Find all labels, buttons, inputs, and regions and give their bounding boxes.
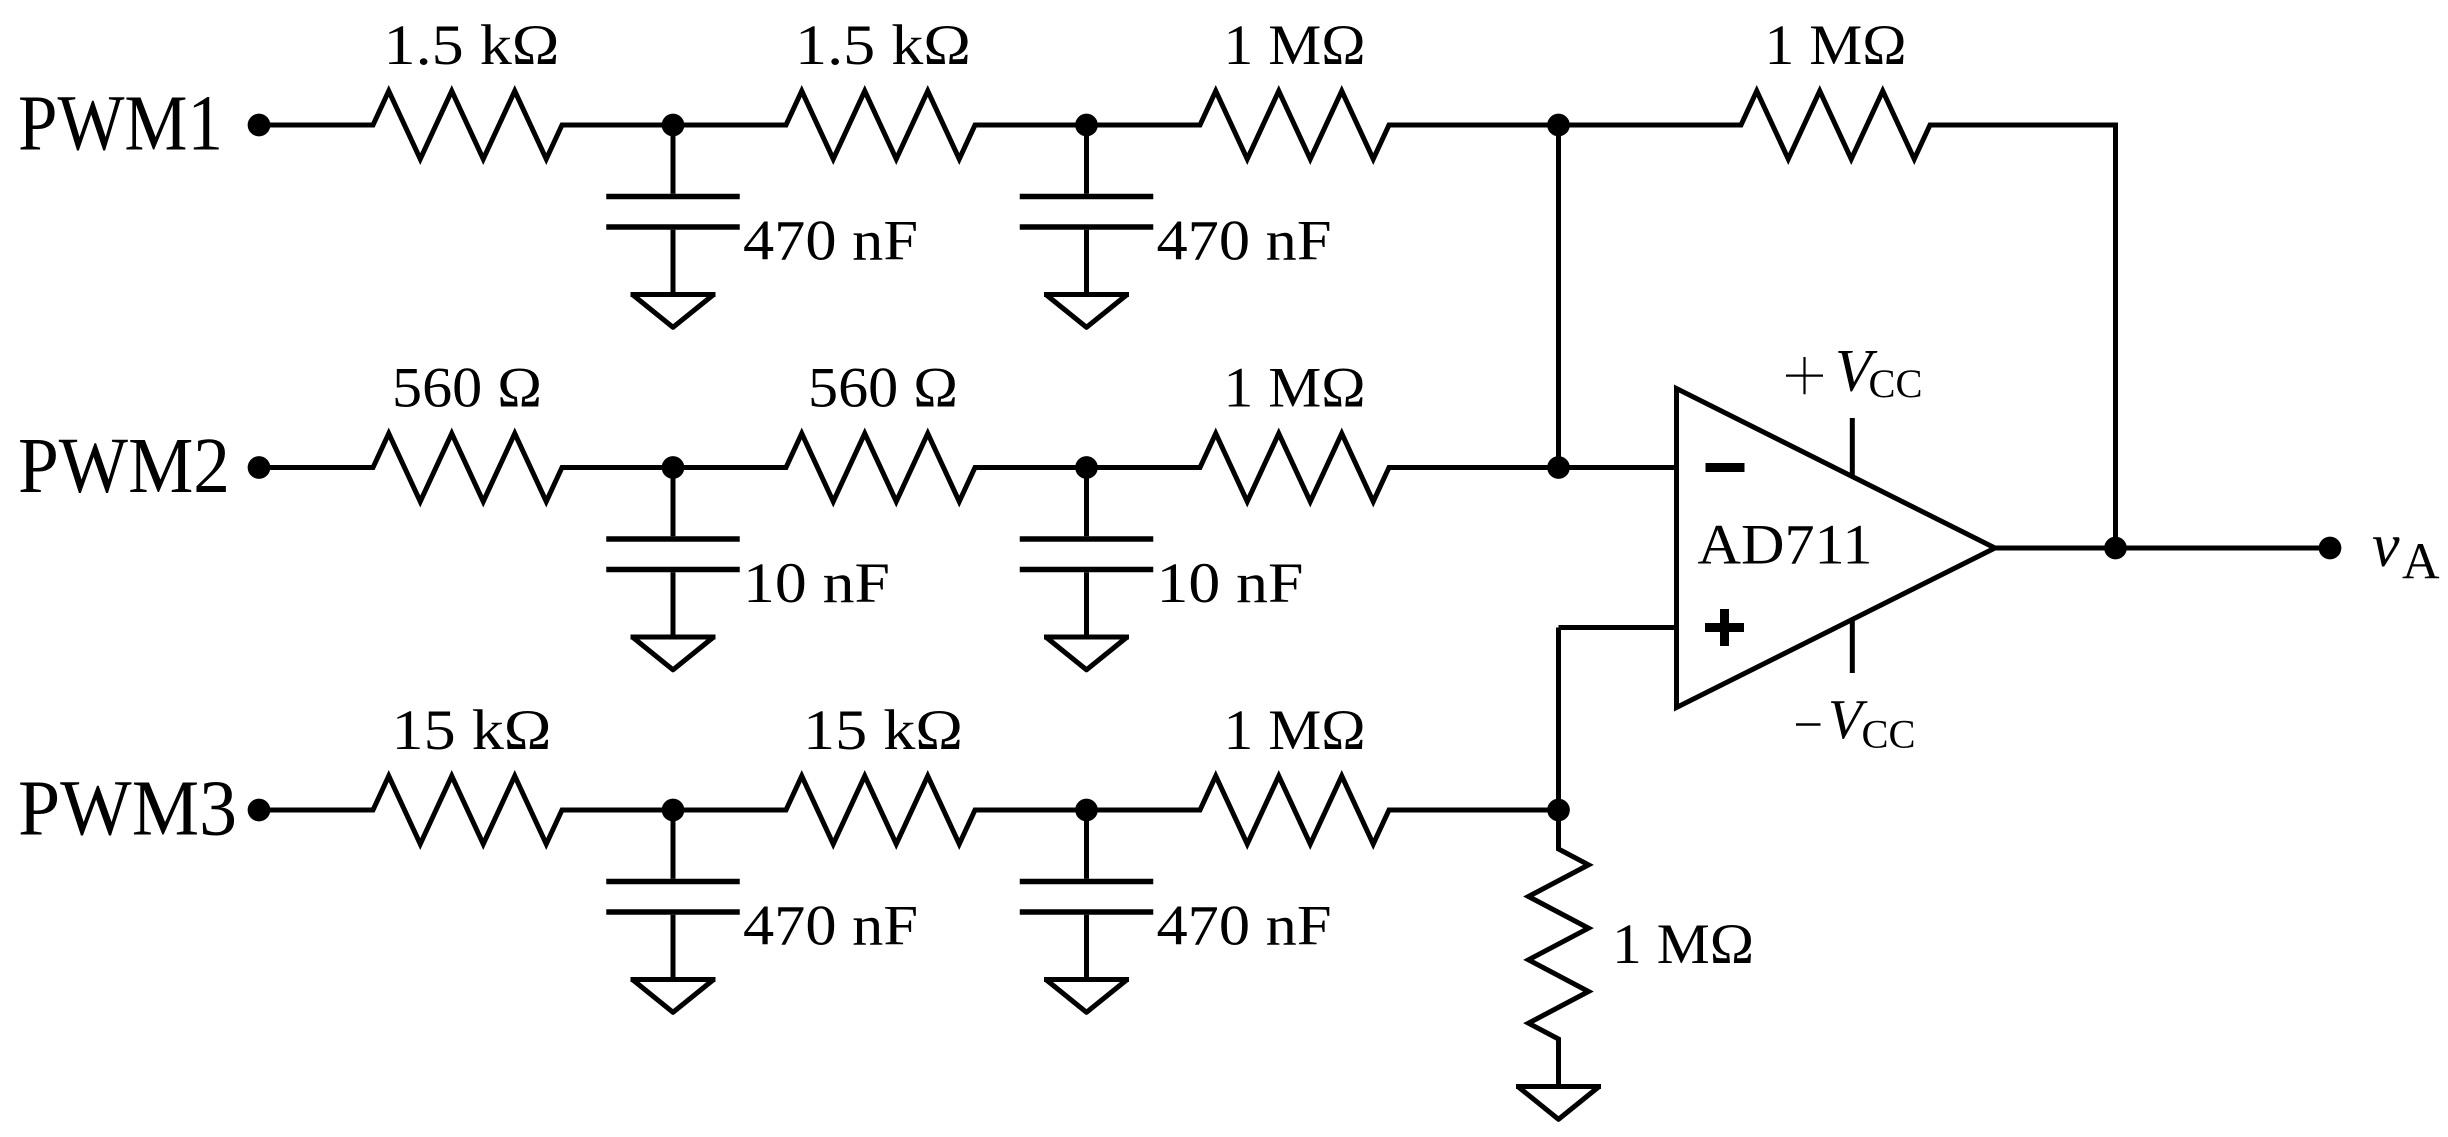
svg-text:1.5 kΩ: 1.5 kΩ: [795, 14, 971, 77]
svg-text:PWM3: PWM3: [18, 766, 237, 853]
svg-text:10 nF: 10 nF: [743, 552, 890, 615]
svg-text:470 nF: 470 nF: [743, 895, 918, 958]
svg-text:1 MΩ: 1 MΩ: [1765, 14, 1907, 77]
svg-text:10 nF: 10 nF: [1157, 552, 1304, 615]
svg-text:AD711: AD711: [1698, 514, 1873, 577]
svg-text:470 nF: 470 nF: [1157, 210, 1332, 273]
svg-text:CC: CC: [1862, 712, 1916, 757]
svg-text:A: A: [2402, 534, 2440, 591]
svg-text:CC: CC: [1869, 361, 1923, 406]
svg-text:15 kΩ: 15 kΩ: [392, 699, 552, 762]
svg-text:1 MΩ: 1 MΩ: [1224, 14, 1366, 77]
svg-text:470 nF: 470 nF: [1157, 895, 1332, 958]
svg-text:1 MΩ: 1 MΩ: [1612, 913, 1754, 976]
svg-text:v: v: [2372, 512, 2400, 580]
svg-text:PWM1: PWM1: [18, 81, 223, 168]
svg-text:1 MΩ: 1 MΩ: [1224, 357, 1366, 420]
svg-text:1 MΩ: 1 MΩ: [1224, 699, 1366, 762]
svg-text:470 nF: 470 nF: [743, 210, 918, 273]
svg-text:1.5 kΩ: 1.5 kΩ: [384, 14, 560, 77]
svg-text:PWM2: PWM2: [18, 423, 230, 510]
svg-text:560 Ω: 560 Ω: [808, 357, 958, 420]
svg-text:560 Ω: 560 Ω: [392, 357, 542, 420]
svg-text:15 kΩ: 15 kΩ: [803, 699, 963, 762]
